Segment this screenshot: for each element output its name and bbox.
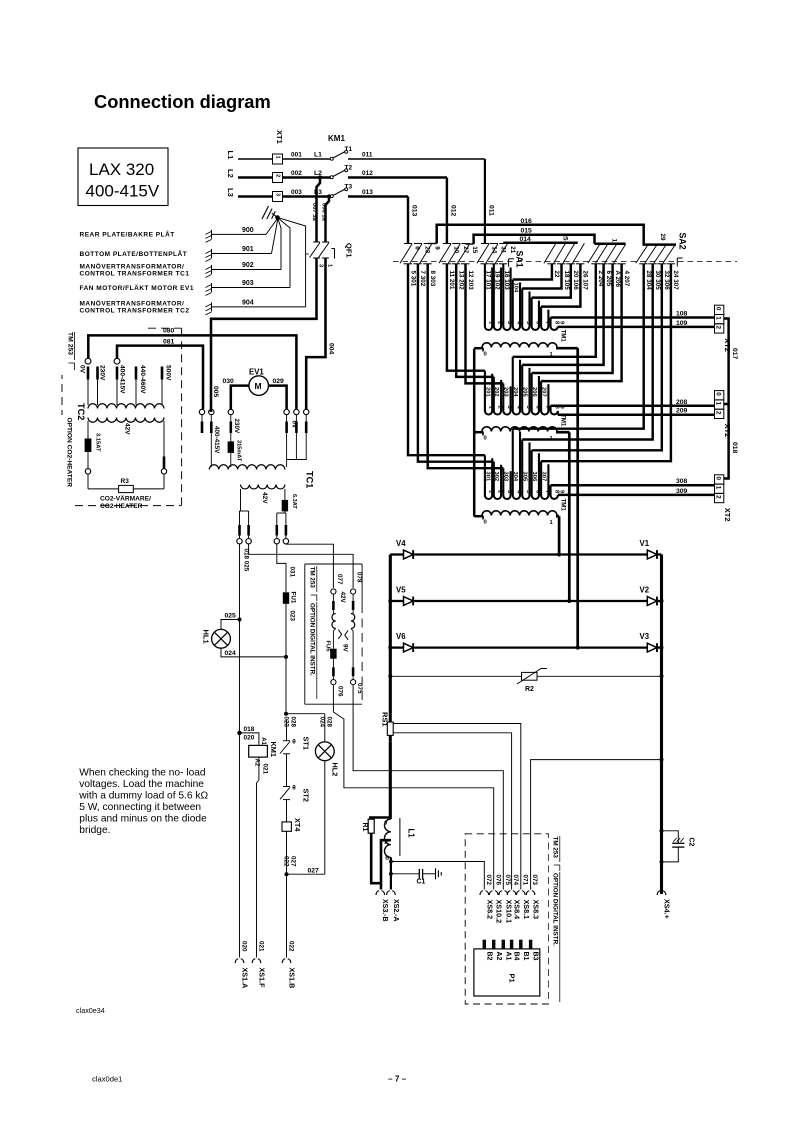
svg-text:with a dummy load of 5.6 kΩ: with a dummy load of 5.6 kΩ (78, 790, 208, 801)
svg-text:022: 022 (287, 941, 294, 952)
wire 012 (348, 176, 447, 179)
svg-text:MANÖVERTRANSFORMATOR/: MANÖVERTRANSFORMATOR/ (80, 299, 185, 308)
svg-text:LAX 320: LAX 320 (89, 160, 154, 179)
contactor KM1 pole T2 (330, 176, 333, 179)
contactor KM1 pole T1 (330, 157, 333, 160)
wire 902 rise (278, 219, 281, 270)
svg-text:302: 302 (493, 472, 499, 482)
wire 022 027 (286, 831, 288, 874)
svg-text:XS1.A: XS1.A (241, 968, 250, 989)
svg-text:1: 1 (715, 486, 722, 490)
wire TM1 phase 1 output (556, 347, 578, 350)
node phase2 to V5 row (567, 599, 571, 603)
svg-text:021: 021 (257, 941, 264, 952)
terminal XT1 pin 2 (273, 173, 283, 183)
svg-text:201: 201 (484, 387, 490, 397)
svg-text:BOTTOM PLATE/BOTTENPLÅT: BOTTOM PLATE/BOTTENPLÅT (80, 249, 188, 258)
P1 pin B2 (483, 940, 486, 949)
TC1 secondary left lead (240, 489, 241, 511)
P1 pin B4 (510, 940, 513, 949)
svg-text:209: 209 (676, 408, 688, 415)
svg-text:θ: θ (292, 739, 296, 746)
svg-text:7 302: 7 302 (419, 271, 426, 287)
bus negative (left) (389, 555, 392, 714)
svg-text:B3: B3 (532, 952, 539, 961)
diode row wire 554.5 (414, 553, 647, 555)
svg-text:32 306: 32 306 (663, 271, 670, 291)
svg-text:plus and minus on the diode: plus and minus on the diode (79, 813, 207, 824)
svg-text:6.3AT: 6.3AT (291, 494, 297, 509)
svg-text:clax0e34: clax0e34 (76, 1006, 105, 1015)
wire R1 bottom (371, 833, 381, 883)
svg-text:208: 208 (676, 399, 688, 406)
transformer TM1 phase 1 tap loop 8 (551, 318, 558, 330)
breaker QF1 (313, 241, 320, 243)
svg-text:5 301: 5 301 (409, 271, 416, 287)
P1 pin B3 (529, 940, 532, 949)
svg-text:T1: T1 (345, 146, 353, 153)
svg-text:P1: P1 (508, 974, 517, 983)
wire QF1 left output to TC1 (211, 258, 317, 412)
svg-text:006 1a: 006 1a (320, 203, 326, 222)
switch linkage dashed (393, 261, 737, 263)
svg-text:XS10.1: XS10.1 (504, 900, 513, 924)
diode row wire 647.6 (414, 646, 647, 648)
svg-text:20 106: 20 106 (572, 271, 579, 291)
wire TC1 term3 to FU1 031 (277, 544, 286, 592)
bus positive (right) (660, 555, 663, 895)
wire 108/208/308 row 3 (551, 484, 715, 487)
svg-text:230V: 230V (233, 419, 240, 435)
svg-text:B2: B2 (485, 952, 492, 961)
resistor R2 (varistor) (522, 672, 538, 680)
svg-text:007 3a: 007 3a (311, 203, 317, 222)
wire 109/209/309 row 2 (558, 413, 715, 416)
chassis wire 902 - MANÖVERTRANSFORMATOR/ (211, 265, 213, 274)
svg-text:108: 108 (676, 311, 688, 318)
svg-text:029: 029 (273, 378, 285, 385)
svg-text:B: B (385, 856, 389, 862)
svg-text:0V: 0V (79, 365, 86, 374)
svg-text:0V: 0V (291, 421, 298, 430)
svg-text:TM1: TM1 (559, 499, 566, 512)
wire 020 to XS1.A (239, 733, 241, 958)
terminal XT4 (282, 822, 291, 831)
transformer TM1 phase 2 tap loop 8 (551, 406, 558, 415)
svg-text:109: 109 (676, 320, 688, 327)
wire A tap (381, 840, 391, 889)
svg-text:CO2-VÄRMARE/: CO2-VÄRMARE/ (100, 495, 151, 503)
wire bus to L1 (389, 817, 392, 819)
svg-text:005: 005 (212, 386, 219, 398)
terminal 076 (332, 676, 334, 679)
svg-text:TM1: TM1 (559, 330, 566, 343)
wire 021 (258, 757, 260, 780)
connector XS3.-B (376, 891, 385, 895)
svg-text:020: 020 (244, 735, 255, 742)
diode V4 (390, 553, 403, 555)
svg-text:027: 027 (308, 867, 320, 874)
junction L2 to QF1 (318, 175, 322, 179)
svg-text:206: 206 (531, 387, 537, 397)
diode V6 (390, 646, 403, 648)
connector XS4.+ (657, 891, 666, 895)
svg-text:309: 309 (676, 488, 688, 495)
chassis wire 900 - REAR PLATE/BAKRE PLÅT (211, 230, 213, 239)
transformer TM1 phase 3 tap loops 1-3 (408, 264, 485, 455)
P1 pin B1 (519, 940, 522, 949)
svg-text:073: 073 (531, 875, 538, 886)
wire 074 from RS1 (393, 733, 511, 890)
svg-text:1: 1 (275, 156, 281, 159)
svg-text:203: 203 (503, 387, 509, 397)
svg-text:XT2: XT2 (723, 508, 732, 522)
svg-text:002: 002 (291, 170, 302, 177)
svg-text:18 105: 18 105 (563, 271, 570, 291)
svg-text:076: 076 (337, 686, 344, 697)
svg-text:XS8.4: XS8.4 (513, 900, 522, 920)
svg-text:TM 253: TM 253 (66, 332, 73, 355)
wire TC1 term4 to TC3 077 (286, 544, 334, 588)
svg-text:071: 071 (521, 875, 528, 886)
svg-text:7: 7 (544, 321, 550, 324)
svg-text:7: 7 (544, 490, 550, 493)
svg-text:FU5: FU5 (325, 641, 331, 653)
contactor KM1 pole T3 (330, 195, 333, 198)
transformer TC2 primary taps (85, 358, 91, 364)
svg-text:021: 021 (262, 764, 269, 775)
svg-text:308: 308 (676, 478, 688, 485)
svg-text:KM1: KM1 (328, 134, 345, 143)
svg-text:303: 303 (503, 472, 509, 482)
transformer TC3 (332, 594, 334, 601)
svg-text:TM 253: TM 253 (552, 837, 559, 859)
svg-text:072: 072 (485, 875, 492, 886)
svg-text:T2: T2 (345, 165, 353, 172)
resistor R2 row wire (390, 675, 661, 677)
P1 pin A1 (502, 940, 505, 949)
svg-text:T3: T3 (345, 184, 353, 191)
TC1 primary tap ticks (201, 422, 204, 434)
TC1 secondary right lead split (277, 512, 286, 514)
svg-text:42V: 42V (261, 492, 268, 504)
wire 024 (221, 648, 286, 657)
capacitor C2 (662, 831, 679, 844)
svg-text:1: 1 (715, 316, 722, 320)
diode V2 (647, 597, 657, 606)
option box CO2-HEATER dashed (148, 327, 182, 329)
transformer TM1 phase 2 winding (482, 427, 557, 432)
terminal XT2 block 2 (715, 391, 724, 400)
svg-text:081: 081 (163, 339, 175, 346)
wire 109/209/309 row 1 (558, 326, 715, 329)
svg-text:22: 22 (553, 271, 560, 279)
svg-text:0: 0 (484, 352, 487, 358)
svg-text:XS2.-A: XS2.-A (392, 899, 399, 922)
svg-text:016: 016 (521, 218, 533, 225)
svg-text:012: 012 (362, 170, 373, 177)
transformer TC1 secondary winding (241, 485, 285, 489)
wire 002 (283, 176, 331, 179)
svg-text:A 206: A 206 (614, 271, 621, 288)
svg-text:014: 014 (520, 236, 532, 243)
svg-text:R1: R1 (361, 823, 368, 832)
svg-text:XT4: XT4 (293, 818, 302, 832)
lamp HL1 (212, 629, 231, 648)
svg-text:028: 028 (325, 717, 332, 728)
transformer TM1 phase 1 tap loops 4-7 (513, 264, 552, 280)
switch SA1 right contacts (544, 243, 556, 263)
wire 001 (283, 158, 331, 160)
svg-text:307: 307 (541, 472, 547, 482)
svg-text:L2: L2 (226, 169, 235, 178)
svg-text:440-460V: 440-460V (139, 365, 146, 394)
terminal XT1 pin 1 (273, 154, 283, 164)
svg-text:023: 023 (289, 611, 296, 622)
connector XS2.-A (387, 891, 396, 895)
wire 901 rise (272, 219, 278, 254)
svg-text:OPTION DIGITAL INSTR.: OPTION DIGITAL INSTR. (552, 873, 559, 946)
node phase1 to V6 row (576, 646, 580, 650)
wire 080 (88, 335, 296, 409)
svg-text:B1: B1 (522, 952, 529, 961)
wire 003 (283, 195, 331, 198)
svg-text:0: 0 (484, 520, 487, 526)
earth ground top (272, 213, 278, 217)
svg-text:REAR PLATE/BAKRE PLÅT: REAR PLATE/BAKRE PLÅT (80, 230, 175, 239)
wire 071 from RS1 (393, 724, 521, 890)
wire 076 to XS10.2 (333, 685, 493, 890)
wire 013 (348, 195, 408, 198)
svg-text:207: 207 (541, 387, 547, 397)
svg-text:025: 025 (225, 613, 237, 620)
SA2 right bar (643, 243, 677, 246)
svg-text:0: 0 (715, 477, 722, 481)
svg-text:076: 076 (494, 875, 501, 886)
svg-text:0: 0 (715, 307, 722, 311)
svg-text:030: 030 (223, 378, 235, 385)
svg-text:031: 031 (289, 567, 296, 578)
switch SA1 group B contacts 10 27 15 (443, 243, 451, 245)
wire 015 (474, 235, 595, 244)
chassis wire 904 - MANÖVERTRANSFORMATOR/ (211, 302, 213, 311)
svg-text:HL1: HL1 (202, 630, 211, 644)
transformer TM1 phase 2 tap loops 1-3 (447, 264, 485, 371)
svg-text:R3: R3 (121, 478, 130, 485)
terminal TC2 secondary right (161, 469, 166, 474)
wire 903 rise (278, 218, 290, 287)
thermal switch ST1 (286, 720, 288, 741)
wire TC1 term2 to TC3 078 (249, 544, 354, 588)
terminal XT2 block 1 (715, 305, 724, 314)
svg-text:L3: L3 (314, 189, 322, 196)
svg-text:OPTION DIGITAL INSTR.: OPTION DIGITAL INSTR. (309, 603, 316, 676)
svg-text:8 303: 8 303 (429, 271, 436, 287)
terminal TC2 secondary left (85, 469, 90, 474)
node 022/027 junction (285, 872, 289, 876)
svg-text:9: 9 (433, 246, 440, 250)
svg-text:2: 2 (275, 174, 281, 177)
svg-text:7: 7 (544, 406, 550, 409)
capacitor C1 (391, 873, 419, 875)
svg-text:XS8.1: XS8.1 (522, 900, 531, 920)
wire QF1 right output 004 (306, 258, 325, 409)
node 023/028 junction (284, 712, 288, 716)
svg-text:C1: C1 (417, 879, 426, 886)
svg-text:ST2: ST2 (302, 789, 311, 802)
svg-text:24 307: 24 307 (672, 271, 679, 291)
wire TM1 phase 2 output (556, 431, 569, 434)
svg-text:900: 900 (242, 227, 254, 234)
svg-text:voltages. Load the machine: voltages. Load the machine (79, 779, 204, 790)
svg-text:027: 027 (290, 856, 297, 867)
wire secondary output phase3 to V4 row (558, 516, 561, 554)
svg-text:V1: V1 (640, 539, 650, 548)
svg-text:104: 104 (513, 283, 519, 293)
svg-text:TC1: TC1 (305, 471, 315, 488)
svg-text:TC2: TC2 (76, 403, 86, 420)
svg-text:V6: V6 (396, 632, 406, 641)
chassis wire 901 - BOTTOM PLATE/BOTTENPLÅT (211, 249, 213, 258)
ground at C1 (435, 868, 437, 879)
svg-text:XT1: XT1 (275, 130, 284, 144)
svg-text:1: 1 (715, 402, 722, 406)
svg-text:Connection diagram: Connection diagram (94, 91, 271, 112)
svg-text:θ: θ (292, 785, 296, 792)
svg-text:42V: 42V (124, 423, 131, 435)
label TM 253 OPTION DIGITAL INSTR (P1 box) (549, 835, 562, 1004)
svg-text:OPTION CO2-HEATER: OPTION CO2-HEATER (66, 418, 73, 488)
svg-text:301: 301 (484, 472, 490, 482)
wire TM1 phase 1 0-end to neutral bus (474, 347, 483, 350)
svg-text:901: 901 (242, 246, 254, 253)
node 024/023 junction (284, 655, 288, 659)
svg-text:42V: 42V (339, 592, 346, 604)
terminal 078 (351, 589, 356, 594)
svg-text:012: 012 (449, 205, 456, 217)
svg-text:011: 011 (487, 205, 494, 216)
svg-text:074: 074 (512, 875, 519, 886)
svg-text:400-415V: 400-415V (213, 426, 220, 454)
svg-text:306: 306 (531, 472, 537, 482)
wire 073 from positive bus (531, 760, 662, 890)
svg-text:9V: 9V (341, 644, 348, 653)
svg-text:304: 304 (512, 472, 518, 482)
svg-text:902: 902 (242, 262, 254, 269)
svg-text:078: 078 (356, 572, 363, 583)
diode V5 (390, 600, 403, 602)
svg-text:004: 004 (328, 343, 335, 355)
svg-text:A1: A1 (260, 737, 266, 745)
svg-text:024: 024 (225, 650, 237, 657)
wire 029 (269, 386, 287, 409)
wire 109/209/309 row 3 (558, 494, 715, 497)
svg-text:26 107: 26 107 (582, 271, 589, 291)
node 018/020 junction (237, 731, 241, 735)
svg-text:28 304: 28 304 (645, 271, 652, 291)
svg-text:077: 077 (336, 574, 343, 585)
svg-text:2: 2 (715, 326, 722, 330)
svg-text:XS10.2: XS10.2 (495, 900, 504, 924)
fuse 6.3AT (284, 489, 286, 500)
svg-text:023: 023 (282, 717, 289, 728)
option box TM253 DIGITAL INSTR (P1) dashed (465, 834, 548, 1004)
wire 018 right (724, 404, 729, 479)
wire 081 (117, 346, 203, 409)
svg-text:CO2-HEATER: CO2-HEATER (100, 503, 143, 510)
wire KM1 feed (240, 733, 259, 746)
svg-text:L3: L3 (226, 188, 235, 197)
svg-text:230V: 230V (99, 365, 106, 381)
svg-text:C2: C2 (688, 838, 695, 847)
neutral bus linking TM1 winding 0-ends (473, 349, 476, 517)
wire 075 to XS10.1 (353, 685, 503, 890)
svg-text:018: 018 (731, 442, 738, 454)
transformer TC1 primary winding (209, 465, 285, 470)
svg-text:SA2: SA2 (678, 233, 688, 250)
transformer TM1 phase 3 tap loops 4-7 (513, 264, 644, 429)
diode V1 (647, 550, 657, 559)
wire 027 to HL2 (287, 873, 325, 875)
wire 904 rise (279, 218, 306, 307)
option box TM253 DIGITAL INSTR (TC3) (305, 563, 362, 565)
junction L3 to QF1 (327, 194, 331, 198)
svg-text:075: 075 (356, 683, 363, 694)
lamp HL2 (315, 742, 334, 761)
terminals TC1 primary (199, 409, 204, 414)
svg-text:022: 022 (283, 856, 290, 867)
svg-text:013: 013 (410, 205, 417, 217)
label TM 253 (left) (60, 330, 77, 375)
transformer TM1 phase 3 tap loop 8 (551, 485, 558, 499)
svg-text:024: 024 (318, 717, 325, 728)
thermal switch ST2 (283, 786, 290, 788)
wire 025 branch (238, 618, 242, 622)
svg-text:MANÖVERTRANSFORMATOR/: MANÖVERTRANSFORMATOR/ (80, 261, 185, 270)
wire TM1 phase 3 0-end to neutral bus (474, 515, 483, 518)
svg-text:SA1: SA1 (515, 251, 525, 268)
wire 022 to XS1.B (286, 874, 288, 957)
P1 pin A2 (492, 940, 495, 949)
svg-text:001: 001 (291, 152, 302, 159)
terminal XT1 pin 3 (273, 192, 283, 202)
svg-text:XS8.2: XS8.2 (485, 900, 494, 920)
switch SA1 group A contacts 6 23 9 (404, 243, 412, 245)
svg-text:clax0de1: clax0de1 (92, 1075, 122, 1084)
svg-text:5 W, connecting it between: 5 W, connecting it between (79, 802, 201, 813)
node phase3 to V4 row (557, 553, 561, 557)
svg-text:bridge.: bridge. (79, 825, 110, 836)
motor EV1 (249, 376, 269, 396)
svg-text:904: 904 (242, 299, 254, 306)
wire 011 (348, 158, 485, 160)
svg-text:A1: A1 (504, 952, 511, 961)
switch SA2 left contacts (588, 244, 600, 263)
transformer TC2 secondary winding (88, 418, 164, 423)
wire 016 (437, 225, 644, 245)
svg-text:205: 205 (522, 387, 528, 397)
svg-text:400-415V: 400-415V (119, 365, 126, 394)
wire ST2-XT4 (286, 800, 288, 822)
svg-text:080: 080 (163, 328, 175, 335)
svg-text:V5: V5 (396, 586, 406, 595)
wire ST1-ST2 (286, 754, 288, 787)
wire L1 bottom to XS2 (390, 857, 392, 889)
svg-text:12 203: 12 203 (467, 271, 474, 291)
svg-text:011: 011 (362, 152, 373, 159)
terminal 075 (352, 676, 354, 679)
svg-text:V2: V2 (640, 586, 650, 595)
